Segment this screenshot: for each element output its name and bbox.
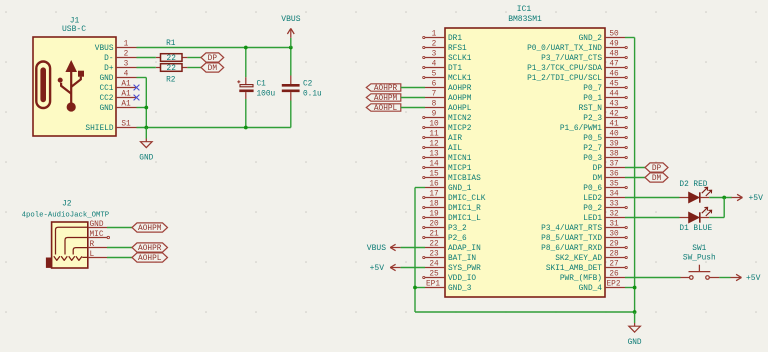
J1 pin A1 CC1 [99,81,136,94]
svg-text:47: 47 [609,61,619,69]
IC1 pin 4 DT1 [423,61,463,74]
svg-text:GND: GND [628,339,642,347]
svg-text:D2 RED: D2 RED [679,181,707,189]
wire SW1 to +5V [719,277,730,279]
svg-text:AOHPL: AOHPL [448,105,472,113]
svg-text:19: 19 [429,211,439,219]
svg-text:P3_4/UART_RTS: P3_4/UART_RTS [541,225,602,233]
svg-text:31: 31 [609,221,619,229]
J1 pin 2 D- [104,51,136,64]
wire GND_2 [625,37,635,39]
J2 reference [22,200,110,220]
svg-text:A1: A1 [121,91,131,99]
IC1 pin 36 DM [593,171,625,184]
svg-text:20: 20 [429,221,439,229]
wire +5V to pin24 [401,267,425,269]
svg-text:18: 18 [429,201,439,209]
IC1 pin 23 BAT_IN [423,251,477,264]
junction [144,106,148,110]
svg-text:P2_7: P2_7 [583,145,602,153]
svg-text:DP: DP [652,165,662,173]
svg-text:BAT_IN: BAT_IN [448,255,476,263]
global label AOHPL at IC [366,104,401,113]
IC1 pin EP2 GND_4 [579,280,625,293]
svg-text:22: 22 [167,55,177,63]
IC1 pin 9 MICN2 [423,111,472,124]
global label AOHPR at IC [366,84,401,93]
wire L to AOHPL [107,257,132,259]
svg-text:9: 9 [432,111,437,119]
J2 pin R [88,241,107,249]
svg-text:46: 46 [609,71,619,79]
wire GND_1 left [415,187,425,189]
svg-text:R: R [90,241,95,249]
svg-text:SKI1_AMB_DET: SKI1_AMB_DET [546,265,602,273]
svg-text:4: 4 [124,71,129,79]
J1 pin S1 SHIELD [85,121,136,134]
wire R1 to DP [187,57,201,59]
wire pin34 to D2 [625,197,680,199]
IC1 pin 14 MICP1 [423,161,472,174]
IC1 pin 10 MICP2 [423,121,472,134]
svg-text:SCLK1: SCLK1 [448,55,472,63]
svg-text:1: 1 [124,41,129,49]
svg-text:0.1u: 0.1u [303,90,322,98]
IC1 pin 3 SCLK1 [423,51,472,64]
wire left vertical [414,188,416,313]
wire gnd vertical [145,78,147,128]
svg-text:41: 41 [609,121,619,129]
svg-text:DP: DP [208,55,218,63]
no-connect CC1 [134,85,140,91]
svg-text:GND: GND [99,105,113,113]
IC1 pin 26 PWR_(MFB) [560,271,625,284]
svg-text:SK2_KEY_AD: SK2_KEY_AD [555,255,602,263]
wire D+ to R2 [137,67,156,69]
J1 pin 1 VBUS [95,41,137,54]
svg-text:24: 24 [429,261,439,269]
IC1 pin 34 LED2 [583,191,625,204]
wire D2 to +5V [709,197,732,199]
power +5V at SYS_PWR [370,264,401,273]
svg-text:4: 4 [432,61,437,69]
IC1 pin 48 P3_7/UART_CTS [541,51,627,64]
svg-text:4pole-AudioJack_OMTP: 4pole-AudioJack_OMTP [22,212,110,220]
svg-text:AIL: AIL [448,145,462,153]
svg-text:2: 2 [432,41,437,49]
IC1 pin 41 P1_6/PWM1 [560,121,627,134]
IC1 pin 21 P2_6 [423,231,467,244]
svg-text:MICN1: MICN1 [448,155,472,163]
svg-text:MICP2: MICP2 [448,125,472,133]
svg-text:10: 10 [429,121,439,129]
svg-text:+5V: +5V [370,264,385,273]
IC1 pin 42 P2_3 [583,111,627,124]
junction [413,286,417,290]
IC1 pin 8 AOHPL [425,101,472,114]
wire D- to R1 [137,57,156,59]
svg-text:P3_7/UART_CTS: P3_7/UART_CTS [541,55,602,63]
svg-text:P2_3: P2_3 [583,115,602,123]
svg-text:DMIC1_L: DMIC1_L [448,215,481,223]
svg-text:29: 29 [609,241,619,249]
svg-text:35: 35 [609,181,619,189]
svg-text:VBUS: VBUS [95,45,114,53]
IC1 pin 35 P0_6 [583,181,627,194]
USB logo [36,60,84,112]
svg-text:AIR: AIR [448,135,462,143]
svg-text:D+: D+ [104,65,114,73]
resistor R2 22 [156,64,188,85]
IC1 pin 40 P0_5 [583,131,627,144]
global label DM at IC [645,173,668,183]
IC1 pin 25 VDD_IO [423,271,477,284]
IC1 pin 5 MCLK1 [423,71,472,84]
svg-text:RST_N: RST_N [579,105,603,113]
wire AOHPR to pin6 [401,87,425,89]
wire AOHPM to pin7 [401,97,425,99]
svg-text:P1_2/TDI_CPU/SCL: P1_2/TDI_CPU/SCL [527,75,602,83]
IC1 pin 45 P0_7 [583,81,627,94]
wire D1 up to junction [723,198,725,218]
wire R to AOHPR [107,247,132,249]
svg-text:28: 28 [609,251,619,259]
svg-text:37: 37 [609,161,619,169]
IC1 pin 12 AIL [423,141,463,154]
svg-text:J1: J1 [70,16,80,25]
svg-text:GND_1: GND_1 [448,185,472,193]
global label DP [201,53,224,63]
svg-text:L: L [90,251,95,259]
svg-text:VBUS: VBUS [367,244,386,253]
svg-text:SW1: SW1 [692,245,706,253]
resistor R1 22 [156,40,188,63]
J1 pin 4 GND [99,71,136,84]
global label DM [201,63,224,73]
svg-text:C1: C1 [257,81,267,89]
IC1 pin 32 LED1 [583,211,625,224]
svg-text:AOHPM: AOHPM [374,95,398,103]
junction [722,196,726,200]
svg-text:17: 17 [429,191,439,199]
global label AOHPM at IC [366,94,401,103]
J1 pin A1 CC2 [99,91,136,104]
connector J1 USB-C [33,37,116,136]
LED D1 BLUE [679,207,712,233]
svg-text:RFS1: RFS1 [448,45,467,53]
svg-text:39: 39 [609,141,619,149]
IC1 pin EP1 GND_3 [425,280,472,293]
svg-text:ADAP_IN: ADAP_IN [448,245,481,253]
IC1 pin 18 DMIC1_R [423,201,481,214]
svg-text:+5V: +5V [746,274,761,283]
svg-text:48: 48 [609,51,619,59]
svg-text:26: 26 [609,271,619,279]
svg-text:27: 27 [609,261,619,269]
IC1 pin 19 DMIC1_L [423,211,481,224]
power VBUS at ADAP_IN [367,244,401,253]
wire GND pin4 [137,77,147,79]
J1 pin 3 D+ [104,61,136,74]
wire GND A1 [137,107,147,109]
IC1 pin 43 RST_N [579,101,628,114]
IC U1 BM83SM1 body [445,28,605,297]
svg-text:MIC: MIC [90,231,104,239]
power VBUS [281,15,300,47]
svg-text:3: 3 [432,51,437,59]
svg-text:42: 42 [609,111,619,119]
IC1 pin 37 DP [593,161,625,174]
svg-text:36: 36 [609,171,619,179]
IC1 pin 24 SYS_PWR [425,261,481,274]
IC1 pin 7 AOHPM [425,91,472,104]
svg-text:GND: GND [99,75,113,83]
svg-text:AOHPL: AOHPL [138,255,162,263]
svg-text:AOHPR: AOHPR [448,85,472,93]
wire pin36 to DM [625,177,645,179]
svg-text:34: 34 [609,191,619,199]
no-connect MIC pin end [107,236,109,238]
svg-text:DM: DM [208,65,218,73]
IC1 pin 47 P1_3/TCK_CPU/SDA [527,61,627,74]
IC1 pin 16 GND_1 [425,181,472,194]
svg-text:GND_4: GND_4 [579,285,603,293]
wire D1 right [709,217,724,219]
power +5V at LEDs [732,194,764,203]
svg-text:6: 6 [432,81,437,89]
svg-text:USB-C: USB-C [62,25,86,34]
power +5V at SW1 [731,274,761,283]
IC1 pin 39 P2_7 [583,141,627,154]
wire GND to AOHPM [107,227,132,229]
wire EP1 [415,287,425,289]
wire right vertical [634,38,636,313]
svg-text:R2: R2 [166,77,176,85]
junction [144,126,148,130]
svg-text:P1_6/PWM1: P1_6/PWM1 [560,125,602,133]
junction [289,46,293,50]
svg-text:33: 33 [609,201,619,209]
wire VBUS rail [137,47,291,49]
junction [244,126,248,130]
no-connect CC2 [134,95,140,101]
svg-text:45: 45 [609,81,619,89]
IC1 pin 13 MICN1 [423,151,472,164]
svg-text:8: 8 [432,101,437,109]
svg-text:P0_2: P0_2 [583,205,602,213]
connector J2 4pole-AudioJack_OMTP [46,222,88,268]
wire bottom rail [415,311,635,313]
svg-text:AOHPR: AOHPR [138,245,162,253]
svg-text:P0_0/UART_TX_IND: P0_0/UART_TX_IND [527,45,602,53]
svg-text:DM: DM [593,175,603,183]
svg-text:BM83SM1: BM83SM1 [508,15,542,24]
wire EP2 [625,287,635,289]
svg-text:A1: A1 [121,101,131,109]
wire AOHPL to pin8 [401,107,425,109]
svg-text:2: 2 [124,51,129,59]
svg-text:1: 1 [432,31,437,39]
svg-text:D1 BLUE: D1 BLUE [679,225,712,233]
svg-text:P3_2: P3_2 [448,225,467,233]
svg-text:12: 12 [429,141,439,149]
J2 pin MIC [88,231,107,239]
svg-text:38: 38 [609,151,619,159]
global label AOHPR [132,243,168,253]
svg-text:P0_3: P0_3 [583,155,602,163]
svg-text:13: 13 [429,151,439,159]
svg-text:14: 14 [429,161,439,169]
J2 pin L [88,251,107,259]
IC1 pin 22 ADAP_IN [425,241,481,254]
wire pin26 to SW1 [625,277,681,279]
svg-text:DR1: DR1 [448,35,462,43]
svg-text:22: 22 [167,65,177,73]
J1 pin A1 GND [99,101,136,114]
svg-text:GND_2: GND_2 [579,35,603,43]
IC1 pin 17 DMIC_CLK [423,191,486,204]
svg-text:P1_3/TCK_CPU/SDA: P1_3/TCK_CPU/SDA [527,65,602,73]
svg-text:CC2: CC2 [99,95,113,103]
svg-text:SW_Push: SW_Push [683,255,716,263]
svg-text:LED1: LED1 [583,215,602,223]
svg-text:VBUS: VBUS [281,15,300,24]
svg-text:C2: C2 [303,81,313,89]
svg-text:MICBIAS: MICBIAS [448,175,481,183]
svg-text:30: 30 [609,231,619,239]
svg-text:MICP1: MICP1 [448,165,472,173]
wire VBUS to pin22 [401,247,425,249]
IC1 pin 50 GND_2 [579,31,625,44]
svg-text:P0_7: P0_7 [583,85,602,93]
J1 reference [62,16,86,34]
svg-text:J2: J2 [62,200,72,209]
IC1 pin 20 P3_2 [423,221,467,234]
IC1 pin 11 AIR [423,131,463,144]
svg-text:21: 21 [429,231,439,239]
svg-text:SYS_PWR: SYS_PWR [448,265,481,273]
IC1 pin 44 P0_1 [583,91,627,104]
IC1 pin 29 P8_6/UART_RXD [541,241,627,254]
IC1 pin 15 MICBIAS [423,171,481,184]
svg-text:IC1: IC1 [517,5,532,14]
global label AOHPL [132,253,168,263]
svg-text:CC1: CC1 [99,85,113,93]
svg-text:EP1: EP1 [426,280,440,288]
svg-text:AOHPL: AOHPL [374,105,398,113]
svg-text:DT1: DT1 [448,65,462,73]
wire R2 to DM [187,67,201,69]
IC1 pin 38 P0_3 [583,151,627,164]
svg-text:DMIC1_R: DMIC1_R [448,205,481,213]
svg-text:VDD_IO: VDD_IO [448,275,476,283]
junction [633,310,637,314]
J2 pin GND [88,221,107,229]
IC1 pin 31 P3_4/UART_RTS [541,221,627,234]
svg-text:32: 32 [609,211,619,219]
svg-text:LED2: LED2 [583,195,602,203]
svg-text:P0_5: P0_5 [583,135,602,143]
svg-text:3: 3 [124,61,129,69]
ground GND bottom [628,312,642,347]
switch SW1 SW_Push [681,245,720,279]
svg-text:P0_1: P0_1 [583,95,602,103]
global label AOHPM [132,223,168,233]
wire pin37 to DP [625,167,645,169]
svg-text:AOHPR: AOHPR [374,85,398,93]
svg-text:49: 49 [609,41,619,49]
svg-text:44: 44 [609,91,619,99]
svg-text:S1: S1 [121,121,131,129]
svg-text:DP: DP [593,165,603,173]
svg-text:DMIC_CLK: DMIC_CLK [448,195,486,203]
svg-text:11: 11 [429,131,439,139]
svg-text:PWR_(MFB): PWR_(MFB) [560,275,602,283]
svg-text:16: 16 [429,181,439,189]
IC1 pin 28 SK2_KEY_AD [555,251,627,264]
svg-text:SHIELD: SHIELD [85,125,113,133]
svg-text:MICN2: MICN2 [448,115,472,123]
capacitor C1 100u [237,48,275,128]
svg-text:DM: DM [652,175,662,183]
svg-text:EP2: EP2 [606,280,620,288]
IC1 pin 2 RFS1 [423,41,467,54]
IC1 pin 6 AOHPR [425,81,472,94]
svg-text:GND: GND [90,221,104,229]
LED D2 RED [679,181,711,203]
svg-text:A1: A1 [121,81,131,89]
wire pin32 to D1 [625,217,680,219]
svg-text:P8_6/UART_RXD: P8_6/UART_RXD [541,245,602,253]
svg-text:P2_6: P2_6 [448,235,467,243]
svg-text:AOHPM: AOHPM [448,95,472,103]
svg-text:P8_5/UART_TXD: P8_5/UART_TXD [541,235,602,243]
svg-text:43: 43 [609,101,619,109]
svg-text:P0_6: P0_6 [583,185,602,193]
IC1 reference [508,5,542,24]
capacitor C2 0.1u [282,48,322,128]
wire SHIELD rail [137,127,291,129]
junction [633,286,637,290]
IC1 pin 27 SKI1_AMB_DET [546,261,627,274]
global label DP at IC [645,163,668,173]
svg-text:22: 22 [429,241,439,249]
svg-text:R1: R1 [166,40,176,48]
svg-text:MCLK1: MCLK1 [448,75,472,83]
svg-text:100u: 100u [257,90,276,98]
svg-text:40: 40 [609,131,619,139]
svg-text:50: 50 [609,31,619,39]
svg-text:+5V: +5V [749,194,764,203]
IC1 pin 49 P0_0/UART_TX_IND [527,41,627,54]
svg-text:7: 7 [432,91,437,99]
svg-text:23: 23 [429,251,439,259]
junction [244,46,248,50]
svg-text:5: 5 [432,71,437,79]
svg-text:25: 25 [429,271,439,279]
svg-text:D-: D- [104,55,113,63]
IC1 pin 46 P1_2/TDI_CPU/SCL [527,71,627,84]
svg-text:GND: GND [139,154,153,162]
svg-text:GND_3: GND_3 [448,285,472,293]
ground GND J1 [139,128,153,163]
IC1 pin 30 P8_5/UART_TXD [541,231,627,244]
svg-text:15: 15 [429,171,439,179]
IC1 pin 33 P0_2 [583,201,627,214]
IC1 pin 1 DR1 [423,31,463,44]
svg-text:AOHPM: AOHPM [138,225,162,233]
